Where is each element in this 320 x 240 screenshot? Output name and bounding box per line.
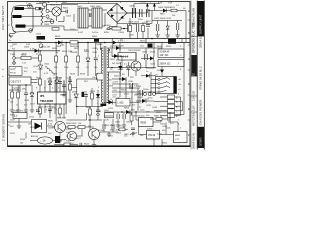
ground left4: [30, 108, 34, 112]
cap C607: [140, 9, 142, 17]
svg-text:IC650: IC650: [139, 115, 145, 117]
connector pin a: [13, 57, 16, 60]
zener stack right of IC: [74, 94, 78, 98]
svg-text:C604: C604: [66, 16, 72, 18]
resistor R604: [52, 28, 59, 31]
svg-text:R602: R602: [63, 8, 69, 10]
secondary output rails: [112, 39, 184, 96]
wire bus main y42.5: [8, 42, 190, 44]
transistor T602: [55, 122, 66, 133]
svg-text:100u: 100u: [140, 110, 145, 112]
svg-text:C601 L602: C601 L602: [90, 6, 101, 8]
svg-text:SI601 T2A: SI601 T2A: [39, 1, 50, 4]
wires: [100, 116, 118, 132]
svg-text:ZPD: ZPD: [22, 88, 27, 90]
wires from switch block: [151, 72, 158, 96]
svg-text:78L12: 78L12: [148, 133, 156, 137]
svg-text:R655: R655: [156, 112, 162, 114]
wire: [141, 75, 156, 77]
svg-text:TDA4605: TDA4605: [40, 99, 54, 103]
connector pin b: [13, 62, 16, 65]
wire rail to D603: [147, 7, 186, 43]
ground b1: [107, 132, 111, 136]
diode D603: [163, 9, 167, 13]
svg-text:R610: R610: [55, 36, 61, 38]
svg-text:1u: 1u: [16, 105, 18, 107]
svg-text:D606: D606: [56, 46, 62, 48]
black comp S601: [94, 39, 99, 42]
svg-text:R610 680: R610 680: [70, 46, 80, 48]
wire top rail: [61, 4, 160, 13]
transformer TR601 core: [104, 46, 106, 106]
svg-text:R637: R637: [30, 127, 36, 129]
svg-text:BD435-B: BD435-B: [57, 118, 66, 120]
bottom left area: [8, 113, 66, 145]
resistor R620: [39, 79, 42, 85]
wire IC top pins: [40, 77, 64, 92]
black blob: [55, 136, 60, 143]
wire to box: [104, 94, 156, 102]
resistor R617: [77, 56, 80, 62]
extra wire stubs bottom right: [154, 122, 178, 145]
svg-text:+: +: [2, 67, 4, 71]
mid lower extra parts: [60, 76, 72, 102]
cap C631: [140, 90, 142, 96]
svg-text:NETZTEIL 110°: NETZTEIL 110°: [192, 104, 196, 126]
wire bridge out: [109, 4, 134, 27]
cap C618: [58, 82, 62, 84]
transistor T601: [131, 61, 141, 71]
bridge rectifier GL601: [107, 4, 127, 23]
paper background: [0, 0, 205, 150]
svg-text:C632: C632: [146, 105, 152, 107]
line filter choke L601: [78, 8, 88, 28]
mains plug P601 body: [11, 5, 33, 32]
vertical comps right of T602: [89, 109, 92, 115]
left mid region: [9, 42, 54, 77]
svg-text:C638: C638: [48, 128, 54, 130]
cap C611b: [146, 25, 150, 27]
plug pin L: [15, 7, 25, 10]
svg-text:C640: C640: [62, 146, 68, 148]
svg-text:TOP: TOP: [168, 2, 173, 4]
diode D621: [122, 77, 126, 81]
wires caps top: [152, 11, 182, 34]
svg-text:R642 680: R642 680: [78, 146, 88, 148]
svg-text:R658: R658: [132, 132, 138, 134]
svg-text:R605: R605: [106, 29, 112, 31]
resistor R609: [142, 26, 145, 32]
svg-text:C4n7: C4n7: [92, 77, 98, 79]
svg-text:C655: C655: [126, 121, 132, 123]
svg-text:Ō P Ū: Ō P Ū: [143, 98, 149, 101]
ground left1: [10, 108, 14, 112]
ground bm3: [131, 132, 135, 136]
svg-text:R643: R643: [86, 107, 92, 109]
svg-text:D623: D623: [157, 70, 163, 72]
svg-text:C633: C633: [152, 107, 158, 109]
wires into pins: [154, 97, 168, 115]
rail1 diode D620: [116, 46, 120, 50]
svg-text:IC602: IC602: [66, 129, 72, 131]
cap C604: [66, 10, 67, 13]
resistor R605: [112, 27, 121, 30]
cap C619: [48, 109, 52, 111]
top right caps group: [152, 11, 182, 38]
svg-text:R615: R615: [52, 48, 58, 50]
bottom frame thick line: [8, 145, 191, 147]
wire fuse to filter: [36, 4, 78, 10]
svg-text:R636: R636: [10, 114, 16, 116]
IC area: [9, 77, 66, 113]
wire bottom bus y112: [104, 111, 168, 113]
diode D605 on left bus: [35, 49, 39, 53]
svg-text:T601 BU508: T601 BU508: [128, 50, 141, 52]
resistor R623: [59, 108, 62, 114]
svg-text:R618: R618: [70, 74, 76, 76]
resistor R616: [65, 56, 68, 62]
X-cap C601: [89, 13, 91, 17]
svg-text:1M: 1M: [20, 143, 23, 145]
svg-text:CNY17: CNY17: [74, 138, 81, 140]
top frame tick labels: [26, 2, 152, 5]
svg-text:+: +: [2, 74, 4, 78]
svg-text:C620: C620: [142, 52, 148, 54]
wires: [12, 85, 32, 108]
ground g2: [166, 33, 170, 37]
small box b1: [13, 113, 27, 119]
wires under t601: [120, 62, 128, 77]
zener D604: [166, 26, 169, 29]
svg-text:L603: L603: [36, 34, 42, 36]
svg-text:FB 08: FB 08: [10, 73, 16, 75]
svg-text:1n: 1n: [146, 71, 148, 73]
phase dot secondary: [109, 49, 110, 50]
secondary rail extra y56-64: [111, 54, 122, 70]
secondary diodes caps column: [112, 68, 156, 111]
sub-regulator box: [116, 99, 130, 107]
wires right mid: [141, 39, 154, 69]
wires horizontals: [112, 84, 154, 101]
wire t601: [112, 43, 136, 77]
diode D626: [96, 94, 100, 98]
plug cable: [9, 32, 16, 38]
dense label smudges: [10, 7, 182, 148]
svg-text:A31 1A: A31 1A: [31, 135, 38, 138]
posistor R603: [52, 7, 61, 16]
wire box to IC: [20, 80, 38, 93]
switch row 3: [158, 87, 160, 89]
cap C630: [130, 83, 132, 89]
switch row 2: [158, 83, 160, 85]
wires pins to frame: [175, 97, 183, 115]
svg-text:C656: C656: [160, 123, 166, 125]
ground bm1: [116, 123, 120, 127]
cap C644: [80, 143, 82, 146]
svg-text:IP1: IP1: [40, 94, 45, 98]
cap C653: [131, 128, 135, 130]
cap C641: [96, 110, 100, 112]
plug top circle: [27, 4, 31, 8]
svg-text:R619: R619: [80, 74, 86, 76]
below IC components: [38, 106, 64, 118]
svg-text:1n: 1n: [121, 79, 123, 81]
plug pin N: [16, 25, 26, 28]
wire left vertical x14: [13, 51, 15, 64]
svg-text:R628: R628: [166, 46, 172, 48]
svg-text:S601: S601: [92, 36, 98, 38]
svg-text:470u: 470u: [148, 98, 153, 100]
svg-text:R630 R631: R630 R631: [9, 90, 20, 92]
diode D611: [118, 66, 122, 70]
line filter choke L602: [92, 8, 102, 28]
wire bus left y50.5: [8, 50, 60, 52]
svg-text:L601: L601: [77, 6, 83, 8]
svg-text:R638: R638: [20, 139, 26, 141]
extra labels lower right: [108, 79, 149, 111]
svg-text:R656: R656: [162, 143, 168, 145]
svg-text:29504 102: 29504 102: [160, 63, 172, 65]
svg-text:C617: C617: [66, 78, 72, 80]
svg-text:C: C: [188, 58, 190, 61]
box label small: [105, 113, 114, 118]
phase dot primary: [100, 48, 101, 49]
resistor R640: [68, 126, 75, 129]
wires down: [118, 112, 132, 125]
switch block bar: [173, 77, 176, 94]
top mid-right extra parts: [129, 18, 151, 39]
svg-text:+310V: +310V: [140, 2, 147, 4]
junction: [111, 67, 112, 68]
resistor R606: [171, 9, 177, 12]
wire r605: [108, 27, 128, 29]
wire posistor net: [45, 5, 66, 22]
wire secondary stubs: [107, 39, 112, 103]
junction dots: [119, 78, 120, 79]
svg-text:TR601: TR601: [96, 44, 103, 46]
left frame ticks: [8, 25, 10, 125]
resistor R661: [156, 118, 162, 121]
wire x40: [39, 51, 41, 77]
switch block box: [156, 77, 177, 94]
svg-text:4x: 4x: [139, 106, 141, 108]
svg-text:D616: D616: [72, 91, 78, 93]
resistor R650: [130, 115, 133, 121]
svg-text:NETZ: NETZ: [192, 73, 196, 80]
svg-text:C603: C603: [44, 24, 50, 26]
cap C610: [137, 24, 139, 32]
svg-text:≡ P 2: ≡ P 2: [134, 85, 140, 88]
svg-text:C630: C630: [128, 81, 134, 83]
circle M marker: [29, 29, 33, 33]
black blob comp: [148, 44, 153, 48]
svg-text:R607: R607: [160, 14, 166, 16]
resistor R631: [17, 92, 20, 98]
svg-text:R650: R650: [128, 113, 134, 115]
svg-text:SUPPLY UNIT: SUPPLY UNIT: [199, 14, 203, 34]
svg-text:R627: R627: [140, 41, 146, 43]
junction: [121, 111, 123, 113]
top right corner labels: [158, 2, 186, 10]
cap C657: [168, 117, 170, 121]
diode D624: [114, 54, 118, 58]
svg-text:250V: 250V: [10, 133, 15, 135]
zener D608: [38, 65, 42, 69]
svg-text:C625: C625: [150, 64, 156, 66]
right vertical collector wires: [175, 39, 185, 115]
svg-text:D614: D614: [29, 117, 35, 119]
wires opto: [66, 129, 83, 136]
svg-text:↔ 1A: ↔ 1A: [40, 140, 46, 143]
wire plug N: [26, 25, 43, 27]
svg-text:D613: D613: [150, 52, 156, 54]
svg-text:1N4148: 1N4148: [70, 52, 78, 54]
cap C635: [24, 93, 28, 95]
resistor R659: [119, 128, 125, 131]
svg-text:C650: C650: [115, 122, 121, 124]
diode D627: [109, 100, 113, 104]
svg-text:2x27m: 2x27m: [92, 32, 98, 34]
coil L604 diagonal: [45, 67, 54, 76]
svg-text:D610: D610: [47, 79, 53, 81]
wires: [53, 120, 103, 143]
svg-text:C61717: C61717: [11, 79, 22, 83]
wires: [64, 76, 70, 98]
bottom middle regulators: [104, 110, 187, 143]
cap C617: [68, 80, 72, 82]
black label plate: [37, 36, 46, 40]
node arrow2: [153, 3, 156, 7]
svg-text:→: →: [10, 64, 12, 66]
diode big black: [35, 123, 42, 130]
TR601 secondary winding 2: [107, 72, 108, 103]
cap C620: [145, 54, 147, 60]
svg-text:R652 4k7: R652 4k7: [110, 130, 120, 132]
primary side lower wires: [67, 78, 98, 120]
cap C642: [103, 124, 105, 129]
rail 1 wire: [112, 47, 162, 49]
ground bc: [58, 139, 62, 143]
svg-text:1W: 1W: [28, 124, 31, 126]
pin box 4: [168, 109, 175, 113]
svg-text:D625: D625: [124, 94, 130, 96]
wires v: [90, 106, 98, 120]
svg-text:R625: R625: [110, 59, 116, 61]
cap C643: [112, 124, 114, 129]
cap C612: [157, 24, 159, 31]
zener D610: [48, 81, 52, 84]
switch contact b: [46, 15, 49, 18]
wires: [40, 110, 64, 118]
TR601 secondary winding: [107, 48, 108, 68]
cap C608: [147, 9, 149, 17]
pin box 5: [168, 113, 175, 117]
wire plug L to fuse: [24, 7, 45, 9]
svg-text:220u: 220u: [138, 19, 143, 21]
resistor R624: [91, 93, 94, 99]
ground bc2: [92, 143, 96, 147]
ground bl: [17, 124, 21, 128]
svg-text:250V~: 250V~: [70, 29, 77, 31]
svg-text:R603 PTC: R603 PTC: [50, 5, 61, 7]
wire rail x120 down: [120, 72, 138, 111]
wires oval: [30, 140, 66, 141]
svg-text:D620 BY299: D620 BY299: [112, 46, 124, 48]
wires2: [118, 128, 128, 130]
svg-text:D631: D631: [134, 115, 140, 117]
svg-text:7805: 7805: [140, 121, 147, 125]
misc junction dots: [65, 42, 66, 43]
arrow marker: [160, 70, 164, 74]
svg-text:C624: C624: [108, 108, 114, 110]
resistor R622: [39, 108, 42, 114]
svg-text:C606: C606: [129, 6, 135, 8]
svg-text:CM1: CM1: [37, 42, 42, 44]
connector stack right: [154, 95, 183, 118]
black cell: [168, 39, 176, 44]
more smudge labels: [10, 46, 182, 148]
svg-text:REM: REM: [175, 135, 180, 137]
wire plug E: [22, 16, 46, 18]
diode box: [32, 120, 47, 133]
info box left: [9, 67, 22, 76]
svg-text:0.047: 0.047: [78, 32, 84, 34]
wire: [112, 56, 122, 70]
cap C650: [117, 114, 119, 119]
bottom center transistors: [53, 106, 103, 147]
transistor T603: [89, 129, 100, 140]
zener D609: [86, 58, 90, 62]
ground g3: [176, 33, 180, 37]
svg-text:110-132: 110-132: [192, 90, 196, 101]
svg-text:L 605: L 605: [118, 102, 125, 105]
svg-text:B P: B P: [9, 34, 13, 38]
svg-text:C652 100u: C652 100u: [104, 125, 115, 127]
svg-text:47u: 47u: [170, 123, 173, 125]
bottom extra parts: [100, 116, 128, 136]
resistor R608: [129, 26, 132, 32]
diode D612: [126, 66, 130, 70]
regulator box IC650: [139, 118, 154, 127]
diode D613: [150, 56, 154, 60]
ground g1: [156, 33, 160, 37]
cap C622: [84, 95, 88, 97]
svg-text:0.1u: 0.1u: [52, 108, 56, 110]
cap C639: [36, 110, 40, 112]
svg-text:R617: R617: [74, 48, 80, 50]
svg-text:C635: C635: [24, 100, 30, 102]
text box 2: [158, 60, 184, 67]
svg-text:C654: C654: [116, 132, 122, 134]
left lower column: [9, 85, 34, 112]
svg-text:+152V: +152V: [112, 82, 119, 84]
diode D630 on bus: [126, 110, 130, 114]
IC IP1 TDA4605: [38, 92, 67, 104]
svg-text:22u: 22u: [146, 115, 149, 117]
right of transformer primary-side: [112, 39, 156, 77]
title strip right: [191, 1, 204, 150]
wires: [76, 88, 92, 106]
svg-text:R620: R620: [36, 78, 42, 80]
switch row 4: [158, 91, 160, 93]
svg-text:C636: C636: [14, 110, 20, 112]
left margin rotated text: [1, 5, 5, 141]
svg-text:R621: R621: [60, 94, 66, 96]
resistor R630: [11, 92, 14, 98]
pin box 2: [168, 100, 175, 104]
svg-text:D621: D621: [114, 76, 120, 78]
fuse SI601: [43, 3, 47, 7]
